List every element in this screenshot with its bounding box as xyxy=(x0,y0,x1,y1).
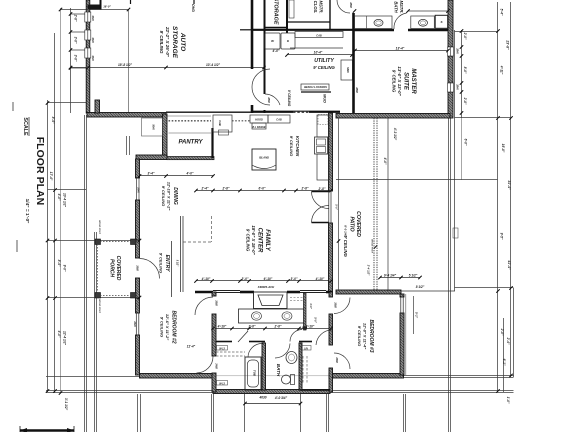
garage door jambs top edge xyxy=(130,0,132,4)
svg-text:13'-0" X 13'-0": 13'-0" X 13'-0" xyxy=(397,66,402,96)
hall east wall hatched segs xyxy=(329,292,333,297)
storage south wall xyxy=(265,27,288,29)
mstr clos east wall xyxy=(329,0,331,29)
bed3 north wall hatched xyxy=(336,290,401,294)
bath west wall xyxy=(262,343,266,390)
svg-text:2'-8": 2'-8" xyxy=(318,187,326,191)
family east wall hatched xyxy=(329,223,333,292)
porch west extension pair xyxy=(94,232,96,432)
left connector y376 xyxy=(46,376,140,378)
left connector y240 xyxy=(48,240,140,242)
dashed ceiling line family xyxy=(183,241,211,243)
svg-text:3'-0": 3'-0" xyxy=(309,303,313,309)
svg-text:ISLAND: ISLAND xyxy=(259,156,269,160)
svg-text:4'-3 1/2": 4'-3 1/2" xyxy=(393,127,397,141)
below-plan extension pair x404 xyxy=(403,394,405,432)
svg-text:5'-0": 5'-0" xyxy=(335,204,339,210)
title SCALE xyxy=(22,117,28,136)
below-plan extension pair bed2 wall xyxy=(137,394,139,432)
svg-text:PANTRY: PANTRY xyxy=(178,140,203,146)
svg-text:MSTR.: MSTR. xyxy=(319,0,324,13)
mstr bath vanity west xyxy=(355,16,393,29)
svg-text:9'-5": 9'-5" xyxy=(500,233,504,240)
svg-text:4'-0": 4'-0" xyxy=(186,172,194,176)
east wall window 1 xyxy=(448,47,454,56)
svg-text:BATH: BATH xyxy=(394,1,399,13)
svg-text:9'-4 1/4": 9'-4 1/4" xyxy=(384,274,397,278)
svg-text:W-13: W-13 xyxy=(219,347,225,350)
dining west wall hatched lower xyxy=(136,200,140,240)
below-plan extension bath wall xyxy=(244,394,246,432)
bed3 door arc north xyxy=(334,298,350,314)
top dim line garage door xyxy=(61,9,129,11)
mud door arc xyxy=(265,94,280,105)
entry door arc xyxy=(140,259,160,279)
room label covered porch xyxy=(109,256,122,281)
patio mid line xyxy=(336,179,455,181)
label hall ceiling xyxy=(287,90,291,107)
label OHD xyxy=(191,4,195,12)
right dim line x504 xyxy=(503,318,505,392)
entry east boundary line xyxy=(171,241,173,297)
svg-text:6'-0": 6'-0" xyxy=(259,187,266,191)
west wall extension pair upper xyxy=(84,115,86,432)
room label mstr clos xyxy=(313,0,324,13)
svg-text:WOOD POST: WOOD POST xyxy=(371,239,373,253)
svg-text:FIREPLACE: FIREPLACE xyxy=(258,285,274,289)
title scale value xyxy=(24,199,30,224)
svg-text:9' CEILING: 9' CEILING xyxy=(392,70,397,93)
garage window dim line xyxy=(70,8,72,113)
mstr bath vanity east xyxy=(411,16,435,29)
svg-text:BATH: BATH xyxy=(276,364,281,377)
svg-text:ENTRY: ENTRY xyxy=(164,255,170,273)
kitchen north cabinets xyxy=(213,115,232,132)
patio dim rotated xyxy=(344,225,348,237)
porch outline dotted xyxy=(98,242,132,296)
toilet west xyxy=(374,19,383,26)
master north wall east seg xyxy=(408,29,448,32)
svg-text:12'-8" X 11'-4": 12'-8" X 11'-4" xyxy=(363,323,368,349)
bed3 east outer line xyxy=(405,294,407,375)
bed3 east wall hatched xyxy=(400,294,404,297)
right connector y118 xyxy=(455,117,511,119)
svg-text:5 1/2": 5 1/2" xyxy=(409,274,418,278)
left connector y298 xyxy=(48,297,140,299)
left dimension extension line B xyxy=(54,33,56,393)
utility sink counter xyxy=(341,60,353,80)
svg-text:SUITE: SUITE xyxy=(403,72,409,91)
svg-text:3'-0": 3'-0" xyxy=(74,55,78,62)
bed2 west wall hatched xyxy=(136,298,140,313)
closet shelves dashed xyxy=(216,351,245,353)
closet walls mid xyxy=(216,341,232,343)
dim texts rotated left column xyxy=(49,1,419,410)
svg-text:FAMILY: FAMILY xyxy=(264,229,270,252)
room label bath xyxy=(276,364,281,377)
bath south wall hatched xyxy=(213,390,330,394)
right east wall extension pair xyxy=(448,118,450,432)
svg-text:TUB: TUB xyxy=(253,370,257,377)
garage shelf tick xyxy=(240,29,252,31)
svg-text:W-13: W-13 xyxy=(219,382,225,385)
patio screen dotted xyxy=(373,118,375,291)
family south wall east seg xyxy=(287,291,300,294)
garage south wall hatched xyxy=(87,113,166,118)
svg-text:9' CEILING: 9' CEILING xyxy=(287,90,291,107)
right dim line x462 xyxy=(461,30,463,118)
kitchen east counter lower xyxy=(317,154,329,180)
kitchen east wall hatched xyxy=(329,113,333,191)
kitchen sink xyxy=(315,137,328,154)
svg-text:8'-4": 8'-4" xyxy=(51,117,55,124)
right connector y288 xyxy=(455,287,514,289)
dimension tick marks xyxy=(46,8,513,405)
svg-text:B.I. RANGE: B.I. RANGE xyxy=(252,126,265,129)
kitchen dim row y190 xyxy=(196,190,331,192)
svg-text:6'-10": 6'-10" xyxy=(264,277,273,281)
bottom scale bar xyxy=(20,426,74,432)
bed2 door arc xyxy=(195,297,213,315)
svg-text:PATIO: PATIO xyxy=(349,216,355,231)
svg-text:SCALE: SCALE xyxy=(22,117,28,136)
svg-text:BENCH LOCKERS: BENCH LOCKERS xyxy=(304,85,327,89)
patio door arc upper xyxy=(312,192,329,209)
svg-text:2668: 2668 xyxy=(215,299,218,306)
svg-text:2868: 2868 xyxy=(349,1,352,8)
master bath dim line xyxy=(408,10,448,12)
patio dim line x338 xyxy=(338,118,340,291)
label sink utility xyxy=(346,67,349,73)
patio inner line xyxy=(387,118,389,291)
bed2 closet door arc xyxy=(197,357,214,374)
svg-text:4'-0": 4'-0" xyxy=(272,49,280,53)
svg-text:2668: 2668 xyxy=(136,264,139,271)
nook window box xyxy=(127,136,130,155)
bottom dim arrow line xyxy=(245,403,301,405)
svg-text:2'-8": 2'-8" xyxy=(248,325,256,329)
svg-text:AUTO: AUTO xyxy=(179,32,186,51)
room label auto storage xyxy=(159,26,186,59)
svg-text:4'-10": 4'-10" xyxy=(315,277,325,281)
svg-text:3'-4": 3'-4" xyxy=(148,172,155,176)
family west arch lines xyxy=(181,216,184,292)
svg-text:OHD: OHD xyxy=(191,4,195,12)
below-plan extension pair hall wall xyxy=(211,394,213,432)
island xyxy=(252,149,276,170)
garage window boxes xyxy=(85,12,91,58)
svg-text:3'-1 1/2": 3'-1 1/2" xyxy=(64,398,68,411)
left dimension extension line C xyxy=(60,8,62,393)
right dim line x498 xyxy=(497,2,499,392)
svg-text:FLOOR PLAN: FLOOR PLAN xyxy=(34,137,45,206)
svg-text:9' CEILING: 9' CEILING xyxy=(357,326,362,347)
svg-text:10'-4 1/2": 10'-4 1/2" xyxy=(63,193,67,207)
family south window east xyxy=(300,291,326,293)
vanity hall xyxy=(239,309,305,323)
pantry east wall stub xyxy=(211,128,213,158)
svg-text:2'-8": 2'-8" xyxy=(222,187,230,191)
closet shelf dashes xyxy=(290,297,303,299)
svg-text:5'-0": 5'-0" xyxy=(314,317,318,323)
garage south wall turn up at west xyxy=(95,100,100,113)
svg-text:2668: 2668 xyxy=(335,356,338,363)
pantry west wall hatched xyxy=(163,114,168,158)
svg-text:1'-0": 1'-0" xyxy=(506,397,510,404)
svg-text:2640: 2640 xyxy=(137,186,140,193)
svg-text:9' CEILING: 9' CEILING xyxy=(343,235,348,257)
bench lockers box xyxy=(301,84,329,90)
svg-text:4'-0": 4'-0" xyxy=(57,193,61,201)
linen west wall xyxy=(299,343,302,390)
patio south line continue xyxy=(401,290,455,292)
bed2 west window xyxy=(136,313,139,335)
garage top-left corner wall xyxy=(88,5,101,10)
room label bedroom 3 xyxy=(357,319,374,352)
master west wall xyxy=(352,13,355,113)
svg-text:9' CEILING: 9' CEILING xyxy=(313,65,335,70)
hall west wall (bed2 east) segs xyxy=(212,292,216,296)
clos door arc xyxy=(337,0,350,13)
svg-text:4'-0 3/4": 4'-0 3/4" xyxy=(274,396,288,400)
bed3 south wall hatched xyxy=(329,374,404,379)
svg-text:CAB: CAB xyxy=(276,119,282,122)
svg-text:3'-4 1/2": 3'-4 1/2" xyxy=(367,265,371,276)
svg-text:2640: 2640 xyxy=(133,320,136,327)
patio door jamb ticks xyxy=(312,191,329,193)
svg-text:9' CEILING: 9' CEILING xyxy=(246,229,251,252)
slider dim rotated xyxy=(335,204,339,210)
svg-text:CAB: CAB xyxy=(218,120,222,126)
svg-text:3040: 3040 xyxy=(91,15,94,21)
svg-text:LIN: LIN xyxy=(304,347,308,350)
svg-text:9' CEILING: 9' CEILING xyxy=(160,317,165,338)
svg-text:6'-1": 6'-1" xyxy=(502,359,506,366)
entry west wall hatched xyxy=(136,240,140,258)
mud closet dashed xyxy=(318,115,328,125)
svg-text:22'-2" X 26'-0": 22'-2" X 26'-0" xyxy=(165,26,170,58)
bed3 window dim line xyxy=(413,296,415,334)
svg-text:3040: 3040 xyxy=(91,55,94,61)
svg-text:COVERED: COVERED xyxy=(355,211,361,237)
porch posts xyxy=(95,239,101,245)
svg-text:BEDROOM #2: BEDROOM #2 xyxy=(171,310,177,343)
svg-text:13'-4 1/2": 13'-4 1/2" xyxy=(206,63,220,67)
svg-text:2840: 2840 xyxy=(456,47,459,54)
attic diagonal xyxy=(238,331,248,342)
right connector y180 xyxy=(455,179,498,181)
garage window dim connectors xyxy=(71,13,89,15)
closet tag boxes xyxy=(217,228,459,385)
svg-text:9' CEILING: 9' CEILING xyxy=(289,136,294,157)
svg-text:2'-0": 2'-0" xyxy=(500,328,504,336)
family dim row y281 xyxy=(196,280,331,282)
svg-text:4'-10": 4'-10" xyxy=(201,277,211,281)
nook south wall hatched xyxy=(136,155,167,160)
bedroom south extension line pair xyxy=(404,375,514,377)
linen shelves dashed xyxy=(302,356,304,384)
hall-bed3 door arc xyxy=(316,330,332,345)
svg-text:DINING: DINING xyxy=(172,187,178,205)
svg-text:9' CEILING: 9' CEILING xyxy=(159,30,164,54)
svg-text:8 1/2": 8 1/2" xyxy=(416,285,425,289)
kitchen north wall line xyxy=(166,111,293,113)
svg-text:6'-0": 6'-0" xyxy=(464,139,468,146)
family south wall west seg xyxy=(195,291,213,294)
svg-text:WOOD POST: WOOD POST xyxy=(98,299,100,313)
svg-text:16'-8": 16'-8" xyxy=(501,144,505,153)
svg-text:3'-0": 3'-0" xyxy=(74,37,78,44)
svg-text:9' CEILING: 9' CEILING xyxy=(159,253,164,274)
garage south window box xyxy=(142,118,163,136)
garage west wall hatched xyxy=(86,0,90,113)
wood post label 3 xyxy=(371,239,373,253)
title dash bottom xyxy=(16,240,18,252)
kitchen east counter upper xyxy=(317,115,329,137)
hall east wall xyxy=(264,0,266,94)
bed3 east window xyxy=(401,297,403,313)
right dim line x511 xyxy=(510,2,512,377)
svg-text:2'-0": 2'-0" xyxy=(463,32,467,40)
svg-text:2868: 2868 xyxy=(355,86,358,93)
svg-text:41'-4": 41'-4" xyxy=(507,259,511,270)
svg-text:2'-8": 2'-8" xyxy=(301,187,309,191)
svg-text:CLOS.: CLOS. xyxy=(313,1,318,14)
svg-text:MSTR.: MSTR. xyxy=(399,0,404,13)
svg-text:S: S xyxy=(440,20,442,24)
svg-text:2668: 2668 xyxy=(334,301,337,308)
svg-text:5 1/2": 5 1/2" xyxy=(176,260,179,267)
svg-text:2'-8": 2'-8" xyxy=(274,325,282,329)
range box xyxy=(252,123,266,129)
utility counter xyxy=(295,32,343,38)
vanity hall east wall xyxy=(304,293,307,330)
svg-text:2868: 2868 xyxy=(267,96,270,103)
washer dryer boxes xyxy=(265,33,295,49)
svg-text:2'-8": 2'-8" xyxy=(463,97,467,105)
room label dining xyxy=(161,182,178,211)
svg-text:3040: 3040 xyxy=(91,37,94,43)
svg-text:8'-0": 8'-0" xyxy=(463,67,467,74)
svg-text:18'-0" X 18'-0": 18'-0" X 18'-0" xyxy=(251,225,256,255)
label cab2 xyxy=(218,120,222,126)
svg-text:3'-0": 3'-0" xyxy=(242,277,249,281)
svg-text:23'-8": 23'-8" xyxy=(506,39,510,50)
bed2 south wall hatched xyxy=(140,374,215,379)
svg-text:PORCH: PORCH xyxy=(109,259,115,277)
bath sink xyxy=(286,352,297,364)
wood post label 1 xyxy=(98,220,100,234)
patio slider door lines xyxy=(329,191,331,223)
master bath door arc xyxy=(394,13,407,29)
vanity hall door arc xyxy=(290,330,302,342)
shower box xyxy=(435,15,448,28)
svg-text:2'-4": 2'-4" xyxy=(506,337,510,345)
svg-text:8'-0 1/4": 8'-0 1/4" xyxy=(344,225,348,237)
garage east wall xyxy=(251,0,254,69)
family south wall mid seg xyxy=(240,291,254,294)
svg-text:KITCHEN: KITCHEN xyxy=(295,136,300,157)
pantry south wall strip xyxy=(167,157,214,160)
fireplace xyxy=(254,292,288,309)
room label master suite xyxy=(392,66,417,96)
dining west wall hatched upper xyxy=(136,159,140,178)
svg-text:5040: 5040 xyxy=(152,124,155,130)
bath door arc xyxy=(248,344,262,358)
svg-text:2840: 2840 xyxy=(456,83,459,90)
svg-text:4'-10": 4'-10" xyxy=(305,325,315,329)
svg-text:11'-4": 11'-4" xyxy=(187,345,196,349)
title dash top xyxy=(12,102,14,111)
svg-text:9' CEILING: 9' CEILING xyxy=(161,186,166,207)
left connector y190 xyxy=(48,189,87,191)
svg-text:4030: 4030 xyxy=(258,396,266,400)
svg-text:HOOD: HOOD xyxy=(255,119,263,122)
svg-text:12'-4 1/2": 12'-4 1/2" xyxy=(63,331,67,345)
svg-text:COVERED: COVERED xyxy=(115,256,121,281)
svg-text:UTILITY: UTILITY xyxy=(314,58,334,64)
svg-text:STORAGE: STORAGE xyxy=(273,0,279,25)
room label family center xyxy=(246,225,271,255)
bath door arc from hall xyxy=(275,344,290,359)
svg-text:2468: 2468 xyxy=(215,362,218,369)
svg-text:MASTER: MASTER xyxy=(410,68,416,94)
svg-text:SINK: SINK xyxy=(346,67,349,73)
patio door arc lower xyxy=(312,206,329,223)
below-plan extension pair x327 xyxy=(326,394,328,432)
svg-text:2'-8": 2'-8" xyxy=(74,14,78,22)
right connector y31 xyxy=(455,31,498,33)
master dim line y51 xyxy=(355,50,448,52)
room label kitchen xyxy=(289,136,300,157)
room label entry xyxy=(159,253,171,274)
room label mstr bath xyxy=(394,0,405,13)
svg-text:31'-4": 31'-4" xyxy=(507,180,511,190)
svg-text:12'-10" X 11'-2": 12'-10" X 11'-2" xyxy=(167,182,172,211)
bed3 door arc xyxy=(334,353,350,369)
pantry shelves dashed xyxy=(169,120,212,122)
svg-text:13'-4": 13'-4" xyxy=(396,47,405,51)
svg-text:18'-8 1/2": 18'-8 1/2" xyxy=(118,63,132,67)
label tub xyxy=(253,370,257,377)
clos shelf box xyxy=(289,0,294,18)
room label storage xyxy=(273,0,279,25)
left dimension extension line A xyxy=(47,100,49,392)
family south window west xyxy=(213,291,240,293)
utility dim row y55 xyxy=(287,54,352,56)
bottom long dim line pair xyxy=(46,390,514,392)
svg-text:1/4" = 1'-0": 1/4" = 1'-0" xyxy=(24,199,30,224)
toilet east xyxy=(419,19,428,26)
svg-text:16'-0": 16'-0" xyxy=(103,5,111,9)
dining dim row y176 xyxy=(140,175,214,177)
svg-text:STORAGE: STORAGE xyxy=(171,26,178,59)
utility north wall xyxy=(252,29,353,31)
room label mud xyxy=(323,94,328,103)
master north wall west seg xyxy=(353,29,394,32)
garage double door arcs xyxy=(252,69,270,87)
bath toilet xyxy=(282,375,291,384)
wood post label 2 xyxy=(98,299,100,313)
svg-text:WOOD POST: WOOD POST xyxy=(98,220,100,234)
dim texts rotated right column xyxy=(456,9,512,404)
svg-text:4'-10": 4'-10" xyxy=(217,325,227,329)
patio dim row y277 xyxy=(380,277,420,279)
svg-text:2'-4": 2'-4" xyxy=(201,187,209,191)
svg-text:CAB: CAB xyxy=(316,35,322,38)
family south wall corner seg xyxy=(326,291,332,294)
svg-text:5'-2": 5'-2" xyxy=(415,312,419,319)
